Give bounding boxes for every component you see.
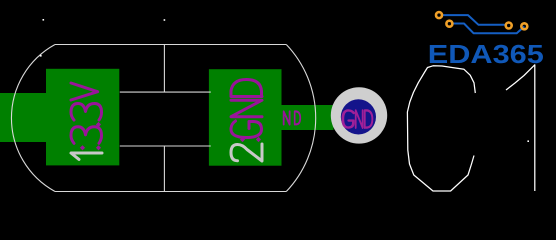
svg-text:EDA365: EDA365: [428, 39, 544, 69]
